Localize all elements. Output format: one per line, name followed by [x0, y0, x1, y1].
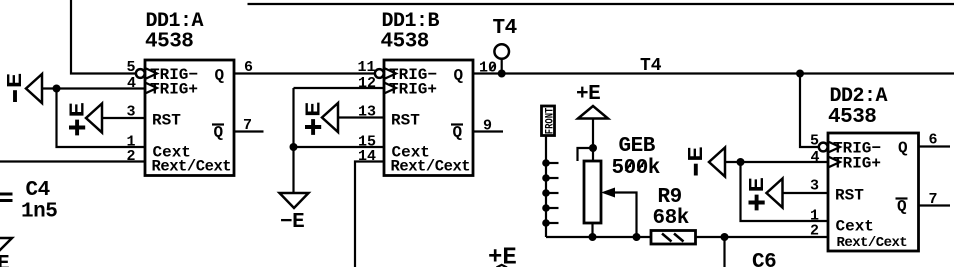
power -E symbol below DD1:B: [280, 193, 309, 234]
wire R9 to DD2:A pin 2 Rext/Cext: [696, 236, 829, 238]
wire T4 terminal stem: [501, 59, 503, 74]
node T4 terminal circle: [494, 44, 509, 59]
wire DD2:A Q-bar pin 7 stub: [919, 204, 951, 206]
svg-text:−E: −E: [0, 253, 9, 267]
node junction wiper to rail: [633, 233, 641, 241]
capacitor C6 label: [752, 251, 776, 267]
wire +E to DD1:B pin 13 RST: [338, 116, 384, 118]
svg-text:RST: RST: [835, 187, 864, 205]
wire DD1:B Q-bar pin 9 stub: [473, 130, 503, 132]
node junction at +E wire: [589, 144, 597, 152]
power +E symbol at DD1:B RST: [304, 102, 338, 135]
svg-text:T4: T4: [493, 17, 517, 40]
svg-text:5: 5: [127, 59, 136, 76]
svg-text:2: 2: [810, 223, 819, 240]
node bundle tap 2: [542, 174, 558, 182]
svg-text:4: 4: [811, 149, 820, 166]
svg-text:+E: +E: [488, 245, 517, 267]
node T4 label top: [493, 17, 517, 40]
svg-text:GEB: GEB: [619, 135, 656, 158]
node junction pot bottom: [589, 233, 597, 241]
svg-text:R9: R9: [658, 186, 682, 209]
svg-text:Q: Q: [214, 124, 224, 142]
wire -E to DD1:A pin 4 TRIG+: [42, 87, 145, 89]
svg-text:4538: 4538: [828, 106, 876, 129]
svg-text:4538: 4538: [381, 31, 429, 54]
wire +E to DD1:A pin 3 RST: [102, 117, 145, 119]
op-amp DD2:A 4538 monostable: [810, 85, 938, 251]
svg-text:12: 12: [358, 75, 376, 92]
wire DD1:A Q pin 6 to DD1:B pin 11: [234, 72, 375, 74]
wire DD1:A Q-bar pin 7 stub: [234, 130, 264, 132]
svg-text:+E: +E: [576, 83, 600, 106]
svg-text:C4: C4: [26, 179, 50, 202]
wire +E to DD2:A pin 3 RST: [783, 192, 829, 194]
svg-text:RST: RST: [391, 112, 420, 130]
svg-text:DD2:A: DD2:A: [830, 85, 888, 108]
wire down to C6: [723, 237, 725, 267]
svg-text:3: 3: [810, 178, 819, 195]
wire FRONT bundle vertical: [545, 137, 547, 238]
svg-text:4: 4: [127, 75, 136, 92]
svg-text:E: E: [747, 178, 770, 193]
connector FRONT label box: [542, 106, 557, 136]
wire pot bottom to rail: [591, 223, 593, 237]
svg-text:C6: C6: [752, 251, 776, 267]
potentiometer GEB 500k: [584, 135, 660, 237]
op-amp DD1:A 4538 monostable: [127, 10, 254, 176]
svg-text:TRIG+: TRIG+: [150, 81, 198, 99]
svg-text:2: 2: [127, 148, 136, 165]
wire DD2:A Q pin 6 stub: [919, 145, 951, 147]
power -E symbol at DD1:A input: [5, 74, 42, 104]
svg-text:E: E: [68, 103, 91, 118]
resistor R9 68k: [651, 186, 696, 244]
power +E symbol bottom middle (cut off): [488, 245, 517, 267]
wire L-stub at pot top: [578, 148, 594, 161]
wire T4 rail down to DD2:A pin 5: [800, 74, 819, 148]
svg-text:TRIG+: TRIG+: [833, 155, 881, 173]
node junction T4 rail to DD2:A: [796, 70, 804, 78]
svg-text:E: E: [686, 147, 709, 162]
wire junction down to DD1:A pin 1 Cext: [57, 89, 146, 148]
svg-text:Rext/Cext: Rext/Cext: [152, 158, 232, 176]
wire DD1:A pin 2 Rext/Cext to left edge: [0, 160, 145, 162]
svg-text:E: E: [5, 74, 28, 89]
op-amp DD1:B 4538 monostable: [358, 10, 498, 176]
node bundle tap 3: [542, 189, 558, 197]
wire DD1:B Q pin 10 / net T4 long rail: [473, 72, 954, 74]
power +E symbol at DD1:A RST: [68, 103, 102, 136]
svg-text:TRIG+: TRIG+: [389, 81, 437, 99]
node junction under T4 terminal: [498, 70, 506, 78]
node junction at C6 branch: [721, 233, 729, 241]
wire from top edge down to DD1:A pin 5: [71, 0, 136, 74]
svg-text:13: 13: [358, 104, 376, 121]
capacitor C4: [0, 179, 57, 224]
svg-text:Q: Q: [454, 67, 464, 85]
svg-text:Q: Q: [215, 67, 225, 85]
svg-text:Q: Q: [897, 198, 907, 216]
node bundle tap 1: [542, 159, 558, 167]
power +E symbol at DD2:A RST: [747, 178, 782, 211]
svg-text:3: 3: [127, 104, 136, 121]
power -E symbol at DD2:A input: [686, 147, 725, 177]
svg-text:5: 5: [810, 133, 819, 150]
svg-text:Q: Q: [898, 139, 908, 157]
svg-text:Cext: Cext: [836, 218, 874, 236]
node T4 label mid-rail: [640, 56, 662, 76]
svg-text:RST: RST: [152, 112, 181, 130]
svg-text:14: 14: [358, 148, 376, 165]
wire DD1:B pin 12 to -E net: [294, 87, 385, 89]
svg-text:4538: 4538: [145, 31, 193, 54]
svg-text:FRONT: FRONT: [544, 107, 556, 134]
svg-text:Q: Q: [453, 124, 463, 142]
wire -E net down to DD2:A pin 1 Cext: [741, 162, 829, 221]
wire DD1:B pin 14 Rext/Cext down to bottom edge: [355, 162, 384, 267]
node bundle tap 5: [542, 219, 558, 227]
power +E symbol above GEB: [576, 83, 608, 119]
node junction DD1:B Cext: [290, 143, 298, 151]
wire -E to DD2:A pin 4 TRIG+: [725, 161, 828, 163]
svg-text:11: 11: [358, 59, 376, 76]
wire bottom rail from FRONT bundle to R9: [546, 236, 651, 238]
svg-text:68k: 68k: [653, 207, 689, 230]
svg-text:500k: 500k: [612, 157, 660, 180]
svg-text:E: E: [304, 102, 327, 117]
svg-text:−E: −E: [280, 211, 304, 234]
node junction -E net DD2: [737, 158, 745, 166]
svg-text:Rext/Cext: Rext/Cext: [837, 235, 908, 251]
power -E symbol bottom-left (cut off): [0, 238, 12, 267]
svg-text:1n5: 1n5: [21, 201, 57, 224]
slashed zero marks: [490, 65, 646, 172]
wire -E vertical net of DD1:B: [292, 88, 294, 193]
node junction at -E net: [53, 85, 61, 93]
svg-text:T4: T4: [640, 56, 662, 76]
wire top rail to right edge: [248, 3, 954, 5]
svg-text:Rext/Cext: Rext/Cext: [391, 158, 471, 176]
wire DD1:B pin 15 Cext: [294, 146, 385, 148]
wire +E down to potentiometer top: [592, 119, 594, 162]
node bundle tap 4: [542, 204, 558, 212]
